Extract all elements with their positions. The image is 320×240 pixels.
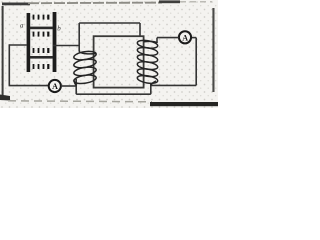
wire bottom link to secondary (76, 93, 151, 95)
wire battery left to corner (9, 44, 26, 46)
wire hook up right end (150, 84, 152, 94)
wire to ammeter A2 right (191, 37, 196, 39)
wire secondary bottom to right (151, 84, 196, 86)
primary coil L1 (73, 50, 97, 86)
battery B: cell plate ticks (33, 15, 50, 69)
battery B: right bar (53, 12, 57, 72)
secondary coil L2 (137, 39, 158, 85)
ammeter A1 (49, 80, 61, 92)
wire left vertical down (8, 44, 10, 85)
wire junction vertical (75, 79, 77, 94)
wire bottom to ammeter A1 (9, 85, 48, 87)
wire battery b to riser (53, 45, 79, 47)
wire coil top tail right (156, 38, 158, 43)
battery B: rung 2 (30, 56, 53, 59)
ammeter A2 (179, 31, 191, 43)
svg-text:A: A (182, 33, 188, 42)
wire A2 left to coil tail (157, 37, 179, 39)
svg-text:b: b (57, 25, 61, 33)
battery B: left bar (27, 13, 31, 72)
battery B: rung 1 (30, 27, 53, 30)
wire riser vertical (78, 23, 80, 52)
svg-text:a: a (20, 22, 24, 30)
svg-text:A: A (52, 82, 58, 91)
transformer core (94, 36, 144, 87)
wire A1 to junction (61, 85, 76, 87)
wire top horizontal (79, 22, 140, 24)
wire top drop (139, 23, 141, 36)
wire right vertical (195, 38, 197, 86)
